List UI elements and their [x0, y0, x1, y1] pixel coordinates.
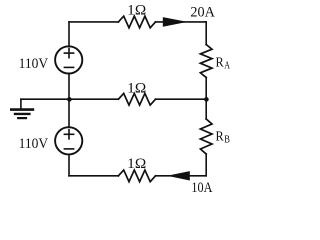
wire ground horizontal — [21, 98, 69, 100]
resistor RA zigzag — [200, 45, 212, 78]
svg-text:A: A — [224, 59, 230, 71]
wire right vertical lower — [205, 154, 207, 176]
junction node right — [204, 97, 209, 102]
wire top-right horizontal — [156, 21, 207, 23]
voltage source V1 110V — [55, 46, 82, 73]
resistor 1ohm bottom zigzag — [118, 170, 155, 182]
svg-text:1Ω: 1Ω — [127, 81, 146, 97]
wire ground stub — [20, 99, 22, 109]
wire left vertical upper — [68, 22, 70, 46]
wire left vertical lower — [68, 155, 70, 176]
current arrow 10A — [167, 171, 190, 180]
svg-text:110V: 110V — [19, 136, 49, 152]
junction node left — [67, 97, 72, 102]
voltage source V2 110V — [55, 127, 82, 154]
wire bottom-right horizontal — [156, 175, 207, 177]
wire top-left horizontal — [69, 21, 118, 23]
resistor 1ohm top zigzag — [118, 16, 155, 28]
ground symbol — [10, 110, 34, 119]
svg-text:1Ω: 1Ω — [127, 156, 146, 172]
wire bottom-left horizontal — [69, 175, 118, 177]
svg-text:110V: 110V — [19, 56, 49, 72]
svg-text:B: B — [224, 133, 230, 145]
svg-text:R: R — [216, 129, 225, 144]
current arrow 20A — [163, 17, 188, 27]
wire middle-left horizontal — [69, 98, 118, 100]
resistor RB zigzag — [200, 119, 212, 154]
svg-text:1Ω: 1Ω — [127, 3, 146, 19]
wire middle-right horizontal — [156, 98, 207, 100]
svg-text:R: R — [216, 55, 225, 70]
svg-text:10A: 10A — [191, 180, 212, 196]
wire left vertical middle — [68, 74, 70, 126]
svg-text:20A: 20A — [190, 5, 215, 21]
resistor 1ohm middle zigzag — [118, 93, 155, 105]
wire right vertical upper — [205, 22, 207, 45]
wire right vertical middle — [205, 78, 207, 120]
